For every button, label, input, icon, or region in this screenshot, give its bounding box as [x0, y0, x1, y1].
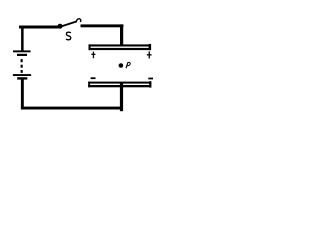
wire left vertical lower: [21, 79, 24, 109]
battery B1 cell1 short plate: [17, 54, 27, 56]
node P dot: [119, 63, 124, 68]
minus charge left: [91, 77, 96, 79]
wire left vertical upper: [21, 26, 24, 51]
capacitor bottom plate: [88, 81, 151, 87]
wire top-right horizontal: [81, 24, 124, 27]
switch S arm tip curl: [76, 19, 80, 22]
switch S pivot dot: [58, 24, 63, 29]
battery B1 cell2 long plate: [13, 74, 31, 76]
battery B1 cell2 short plate: [17, 77, 27, 79]
minus charge right: [148, 78, 153, 80]
battery B1 cell1 long plate: [13, 50, 31, 52]
wire top-left horizontal: [19, 26, 61, 29]
wire bottom horizontal: [21, 107, 123, 110]
plus charge right: [147, 51, 152, 58]
wire right vertical lower: [120, 83, 123, 111]
wire right vertical upper: [120, 24, 123, 46]
plus charge left: [91, 52, 95, 59]
label S: [66, 32, 71, 40]
switch S arm: [61, 21, 77, 26]
battery B1 dashed ellipsis: [21, 59, 23, 73]
capacitor top plate: [89, 44, 152, 50]
label P: [126, 62, 130, 68]
